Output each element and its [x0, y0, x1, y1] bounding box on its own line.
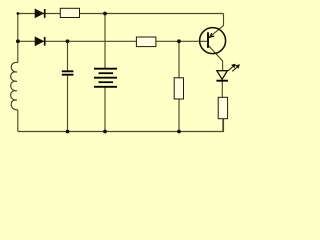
wire capacitor top: [67, 41, 69, 70]
wire mid vertical bottom: [104, 87, 106, 132]
wire R4 to rail: [222, 119, 224, 132]
inductor L1: [11, 62, 18, 109]
node row2 capacitor junction: [66, 39, 70, 43]
wire bottom rail: [18, 119, 224, 132]
wire capacitor bottom: [67, 76, 69, 132]
LED emission arrow 1: [228, 64, 235, 70]
node row2 R3 junction: [177, 39, 181, 43]
battery B1: [94, 69, 117, 87]
node rail capacitor junction: [66, 130, 70, 134]
wire collector to LED: [208, 45, 223, 71]
resistor R4: [218, 97, 227, 118]
node top-left corner: [17, 12, 20, 15]
wire left vertical upper: [17, 14, 19, 63]
wire emitter to top rail: [209, 14, 223, 38]
diode D2: [35, 37, 45, 46]
resistor R3: [174, 78, 183, 99]
LED D3: [216, 64, 239, 80]
node row2 left junction: [16, 39, 20, 43]
transistor Q1: [200, 28, 226, 54]
node top mid junction: [103, 12, 107, 16]
wire row2 base line: [18, 40, 208, 42]
node rail R3 junction: [177, 130, 181, 134]
resistor R2: [136, 37, 156, 47]
capacitor C1: [62, 71, 74, 74]
wire top rail: [18, 13, 224, 15]
diode D1: [35, 9, 45, 18]
wire LED to R4: [221, 81, 223, 98]
LED emission arrow 2: [232, 65, 239, 71]
resistor R1: [60, 8, 79, 17]
node rail battery junction: [103, 130, 107, 134]
wire R3 bottom: [178, 99, 180, 132]
wire R3 top: [178, 41, 180, 78]
wire mid vertical top: [104, 14, 106, 69]
wire left vertical lower: [17, 110, 19, 132]
